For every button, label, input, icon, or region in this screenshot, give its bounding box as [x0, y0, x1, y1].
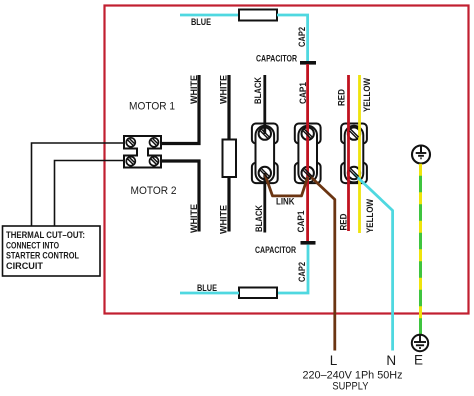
svg-text:SUPPLY: SUPPLY: [332, 381, 369, 393]
svg-text:RED: RED: [339, 213, 349, 230]
wire blue top-right segment down to capacitor: [277, 15, 308, 61]
wire blue top-left segment: [180, 14, 239, 17]
svg-text:CAP2: CAP2: [297, 27, 307, 47]
wire white motor1 second (into connector): [227, 75, 230, 141]
svg-text:CAPACITOR: CAPACITOR: [255, 245, 296, 255]
svg-text:BLACK: BLACK: [254, 205, 264, 232]
motor terminal block (H shape): [124, 136, 161, 168]
thermal cut-out box: [3, 226, 101, 276]
connector block bottom (in blue wire): [239, 288, 277, 299]
wire thermal cutout lead 1 (thin): [32, 143, 125, 226]
wire earth (green dashes): [419, 164, 422, 335]
svg-text:BLUE: BLUE: [197, 283, 217, 293]
wire white motor2 second (below connector): [227, 177, 230, 232]
terminal strip 1 body: [252, 124, 278, 184]
svg-text:BLACK: BLACK: [253, 77, 263, 104]
thermal cut-out text: [6, 230, 85, 272]
screw slot strip2 top: [303, 129, 312, 139]
svg-text:MOTOR 1: MOTOR 1: [129, 101, 175, 113]
screw slot strip1 bottom: [260, 169, 269, 179]
wire white motor2 first (from terminal block): [161, 161, 199, 232]
wire blue bottom-left segment: [180, 292, 239, 295]
svg-text:CIRCUIT: CIRCUIT: [6, 261, 43, 272]
svg-text:LINK: LINK: [276, 197, 295, 207]
screw slot strip2 bottom: [303, 169, 312, 179]
enclosure border (red box): [105, 6, 469, 314]
svg-text:YELLOW: YELLOW: [365, 199, 375, 233]
svg-text:N: N: [386, 353, 396, 368]
svg-text:WHITE: WHITE: [219, 205, 229, 234]
wire yellow motor lead (through strip3): [358, 75, 361, 233]
wire brown link (strip1 to strip2): [265, 174, 308, 196]
connector block top (in blue wire): [239, 10, 277, 21]
svg-text:MOTOR 2: MOTOR 2: [131, 185, 177, 197]
svg-text:E: E: [414, 353, 423, 368]
terminal strip 2 body: [295, 124, 321, 184]
svg-text:CAP1: CAP1: [296, 211, 306, 233]
screw slot strip3 top: [350, 129, 359, 139]
wire red CAP1 (capacitor through strip2 to bottom capacitor): [306, 64, 309, 241]
terminal strip 3 body: [341, 124, 367, 184]
screw top-right: [150, 138, 159, 147]
capacitor plate (top): [300, 61, 316, 65]
wire blue bottom-right segment (capacitor down and left): [277, 245, 308, 293]
wire thermal cutout lead 2 (thin): [55, 161, 125, 227]
svg-text:L: L: [330, 353, 338, 368]
wire earth (yellow base): [419, 164, 422, 335]
earth symbol bottom: [412, 335, 428, 351]
svg-text:WHITE: WHITE: [219, 75, 229, 104]
svg-text:CAP2: CAP2: [297, 262, 307, 282]
connector block middle (in white wire): [223, 140, 237, 178]
screw slot strip3 bottom: [350, 169, 359, 179]
screw bottom-right: [150, 157, 159, 166]
screw slot strip1 top: [260, 129, 269, 139]
screw top-left: [126, 138, 135, 147]
svg-text:YELLOW: YELLOW: [362, 78, 372, 112]
svg-text:WHITE: WHITE: [189, 204, 199, 233]
wire white motor1 (thick black, to terminal block): [161, 75, 199, 144]
svg-text:RED: RED: [337, 89, 347, 106]
wire cyan neutral (strip3 to N): [354, 174, 393, 351]
svg-text:CAPACITOR: CAPACITOR: [256, 54, 297, 64]
svg-text:BLUE: BLUE: [191, 17, 211, 27]
wire brown live supply (strip2 to L): [308, 174, 335, 351]
svg-text:WHITE: WHITE: [189, 75, 199, 104]
earth symbol top: [412, 146, 430, 164]
capacitor plate (bottom): [301, 241, 316, 245]
wire black motor1 (into strip1 top screw): [263, 75, 266, 134]
wire black motor2 (from strip1 bottom screw): [263, 173, 266, 233]
screw bottom-left: [126, 157, 135, 166]
wire red motor lead (through strip3): [347, 75, 350, 231]
